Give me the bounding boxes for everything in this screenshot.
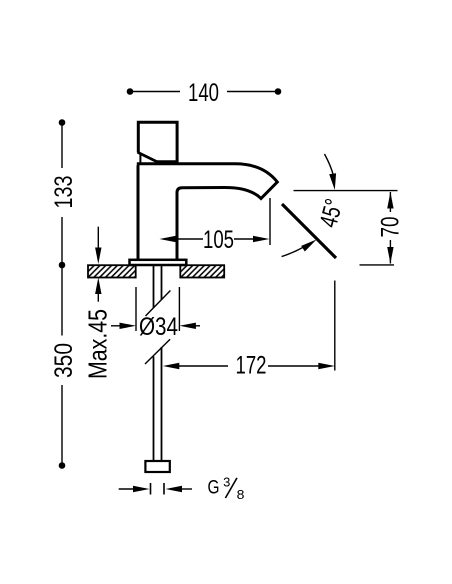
supply pipe right line upper xyxy=(161,265,163,300)
thread label fraction slash xyxy=(225,478,237,498)
svg-text:172: 172 xyxy=(236,352,267,380)
dimension 140 right dot xyxy=(275,88,282,95)
dimension O34 label xyxy=(139,317,178,336)
dimension Max.45 upper line xyxy=(97,227,99,250)
45 degree baseline xyxy=(294,190,398,192)
thread dimension right arrowhead xyxy=(166,486,183,492)
left dimension line segment 1 xyxy=(61,123,63,169)
dimension 172 extension line xyxy=(334,281,336,371)
base flange xyxy=(130,260,187,265)
dimension 172 right arrowhead xyxy=(318,363,335,369)
svg-text:G: G xyxy=(208,478,220,499)
svg-text:3: 3 xyxy=(223,475,230,489)
faucet handle outline xyxy=(138,122,177,161)
svg-text:Max.45: Max.45 xyxy=(83,309,113,379)
pipe break slash upper xyxy=(146,291,171,317)
45 degree upper arc arrow xyxy=(325,154,334,175)
svg-text:45°: 45° xyxy=(314,196,348,230)
dimension O34 left arrow tail xyxy=(111,325,121,327)
left dimension middle dot xyxy=(59,262,66,269)
dimension 70 up arrowhead xyxy=(387,192,393,209)
svg-text:140: 140 xyxy=(188,79,219,107)
45 degree reference diagonal xyxy=(282,204,336,258)
dimension 172 line left segment xyxy=(178,365,228,367)
dimension 105 line left segment xyxy=(176,238,203,240)
left dimension line segment 3 xyxy=(61,385,63,466)
thread dimension right tail xyxy=(181,488,193,490)
dimension O34 right extension line xyxy=(178,287,180,331)
dimension Max.45 down arrowhead xyxy=(95,248,101,265)
thread dimension right tick xyxy=(163,483,165,495)
dimension O34 right arrow tail xyxy=(194,325,200,327)
dimension Max.45 lower line xyxy=(97,292,99,302)
left dimension top dot xyxy=(59,119,66,126)
thread dimension left tick xyxy=(150,483,152,495)
45 degree lower arc arrow xyxy=(282,247,305,257)
left dimension bottom dot xyxy=(59,462,66,469)
supply pipe right line lower xyxy=(161,347,163,461)
thread dimension left tail xyxy=(119,488,135,490)
dimension 140 left dot xyxy=(127,88,134,95)
svg-text:105: 105 xyxy=(203,226,234,254)
dimension 70 vertical line upper segment xyxy=(389,192,391,212)
svg-text:70: 70 xyxy=(377,217,405,238)
dimension Max.45 up arrowhead xyxy=(95,278,101,295)
left dimension line segment 2 xyxy=(61,217,63,336)
dimension 172 left arrowhead xyxy=(163,363,180,369)
faucet handle wedge line xyxy=(139,154,141,163)
connector block G3/8 xyxy=(145,461,169,472)
faucet body and spout outline xyxy=(137,164,277,261)
countertop hatched section left xyxy=(88,265,136,277)
dimension 70 vertical line lower segment xyxy=(389,240,391,264)
dimension 140 line left segment xyxy=(130,91,180,93)
spout tip extension line xyxy=(269,198,271,245)
countertop hatched section right xyxy=(180,265,224,277)
pipe break slash lower xyxy=(145,339,170,364)
dimension O34 left extension line xyxy=(135,287,137,331)
dimension 70 bottom tick xyxy=(360,264,395,266)
dimension O34 left arrowhead xyxy=(120,323,137,329)
thread dimension left arrowhead xyxy=(133,486,150,492)
dimension 172 line right segment xyxy=(268,365,320,367)
dimension O34 right arrowhead xyxy=(179,323,196,329)
dimension 70 down arrowhead xyxy=(387,247,393,264)
faucet handle chamfer line xyxy=(138,152,159,162)
dimension 105 left arrowhead xyxy=(160,236,177,242)
dimension 105 line right segment xyxy=(234,238,254,240)
svg-text:Ø34: Ø34 xyxy=(139,313,178,341)
dimension 105 right arrowhead xyxy=(253,236,270,242)
supply pipe left line lower xyxy=(153,357,155,462)
dimension 140 line right segment xyxy=(227,91,278,93)
svg-text:133: 133 xyxy=(50,176,78,209)
svg-text:8: 8 xyxy=(237,487,245,502)
supply pipe left line upper xyxy=(153,265,155,308)
svg-text:350: 350 xyxy=(50,343,78,378)
